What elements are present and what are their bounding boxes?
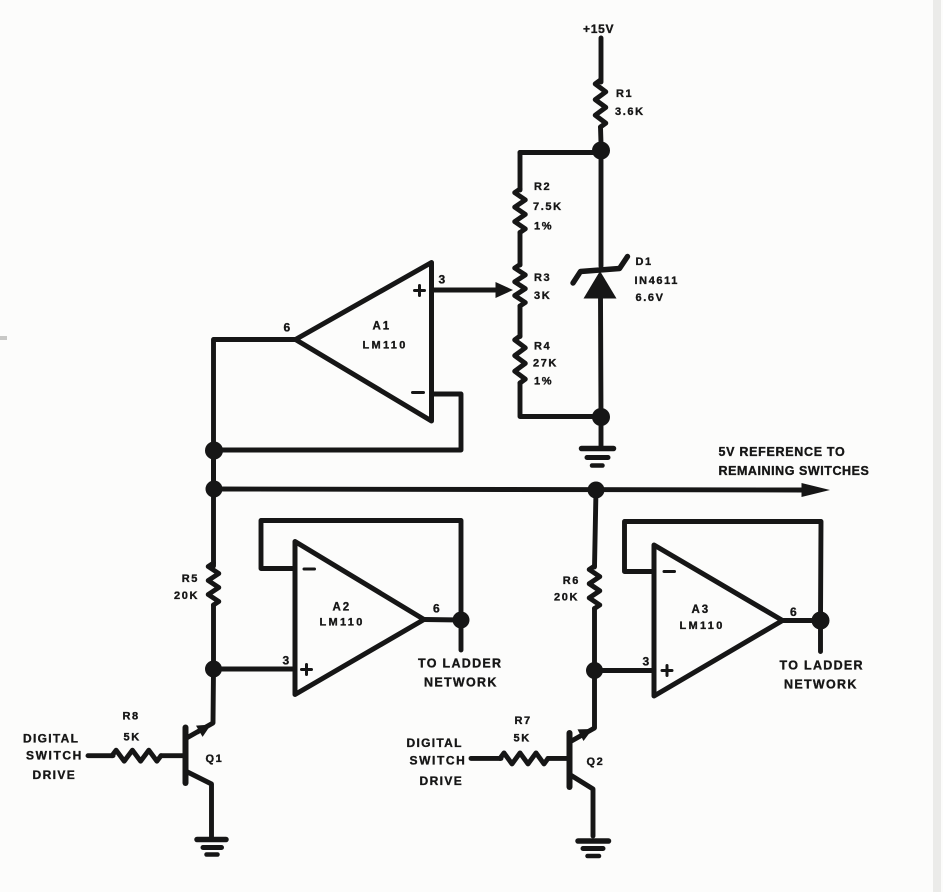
node R5 to A2 input junction xyxy=(205,661,222,678)
node R6 to A3 input junction xyxy=(586,662,603,679)
node reference bus to R6 xyxy=(588,482,605,499)
label A2 pin 3 xyxy=(283,654,290,668)
zener diode D1 cathode bar xyxy=(573,257,628,284)
wire A2 feedback loop xyxy=(261,521,461,621)
svg-text:3.6K: 3.6K xyxy=(615,106,645,118)
label R4 value xyxy=(533,341,558,388)
svg-text:A3: A3 xyxy=(692,604,711,616)
resistor R6 xyxy=(589,566,600,609)
minus sign A1 input xyxy=(413,391,424,394)
label Q1 designator xyxy=(206,753,224,765)
label R5 value xyxy=(174,573,199,602)
ground under Q2 xyxy=(578,841,609,856)
label Q2 designator xyxy=(587,756,605,768)
resistor R8 xyxy=(112,750,161,761)
label A2 designator xyxy=(320,602,365,629)
wire Q1 collector lead xyxy=(188,669,214,738)
arrowhead Q2 emitter-collector xyxy=(578,729,593,741)
wire A3 feedback loop xyxy=(625,522,822,621)
svg-text:DIGITAL: DIGITAL xyxy=(23,732,79,746)
label 5V reference note xyxy=(719,445,870,478)
wire ground lead under reference node xyxy=(595,490,597,567)
label A1 pin 6 xyxy=(284,321,291,335)
svg-text:NETWORK: NETWORK xyxy=(424,676,498,690)
label A1 designator xyxy=(363,321,408,352)
svg-text:Q2: Q2 xyxy=(587,756,605,768)
svg-text:6: 6 xyxy=(790,605,797,619)
svg-text:A1: A1 xyxy=(373,321,392,333)
label R3 value xyxy=(534,272,551,302)
label A3 designator xyxy=(680,604,725,632)
resistor R4 xyxy=(515,336,526,383)
potentiometer R3 xyxy=(515,265,526,307)
label R7 value xyxy=(514,715,532,745)
wire R5 to Q1 collector junction xyxy=(211,605,216,669)
svg-text:R7: R7 xyxy=(515,715,532,727)
svg-text:LM110: LM110 xyxy=(320,617,365,629)
wire A1 inverting feedback loop xyxy=(214,394,461,450)
label R1 value xyxy=(615,88,645,118)
svg-text:5K: 5K xyxy=(124,732,141,744)
svg-text:NETWORK: NETWORK xyxy=(784,678,858,692)
wire digital drive input left xyxy=(88,753,113,758)
svg-text:R1: R1 xyxy=(616,88,633,100)
svg-text:27K: 27K xyxy=(533,358,558,370)
wire R2 to R3 xyxy=(518,233,523,266)
svg-text:R2: R2 xyxy=(534,181,551,193)
wire R6 to Q2 collector junction xyxy=(592,609,597,671)
resistor R2 xyxy=(515,189,526,233)
svg-text:DRIVE: DRIVE xyxy=(33,768,77,782)
wire +15V supply lead xyxy=(599,38,604,82)
svg-text:DRIVE: DRIVE xyxy=(420,774,464,788)
label digital switch drive left xyxy=(23,732,83,783)
node A3 output junction xyxy=(812,612,830,630)
svg-text:D1: D1 xyxy=(636,256,653,268)
label A3 pin 3 xyxy=(643,655,650,669)
svg-text:SWITCH: SWITCH xyxy=(26,749,83,763)
svg-text:1%: 1% xyxy=(534,376,553,388)
resistor R5 xyxy=(208,563,219,605)
label to ladder network left xyxy=(418,657,502,690)
transistor Q2 base bar xyxy=(567,733,573,787)
label A3 pin 6 xyxy=(790,605,797,619)
wire Q2 collector lead xyxy=(572,671,595,742)
label digital switch drive right xyxy=(407,736,467,788)
label A1 pin 3 xyxy=(439,273,446,287)
svg-text:20K: 20K xyxy=(554,592,579,604)
plus sign A3 input xyxy=(662,666,672,676)
svg-text:TO LADDER: TO LADDER xyxy=(780,659,864,673)
label R8 value xyxy=(123,711,141,744)
wire Q2 emitter lead xyxy=(571,775,594,836)
op-amp A2 triangle xyxy=(295,542,424,695)
ground under divider xyxy=(582,449,614,466)
svg-text:1%: 1% xyxy=(534,221,553,233)
wire divider upper segment xyxy=(518,153,523,191)
svg-text:3: 3 xyxy=(283,654,290,668)
minus sign A3 input xyxy=(664,570,675,573)
node A2 output junction xyxy=(453,612,470,629)
wiper arrow into R3 xyxy=(496,282,514,298)
svg-text:7.5K: 7.5K xyxy=(533,201,563,213)
svg-text:LM110: LM110 xyxy=(363,340,408,352)
arrowhead Q1 emitter-collector xyxy=(196,725,211,737)
svg-text:6.6V: 6.6V xyxy=(636,292,665,304)
wire digital drive input right xyxy=(471,756,501,761)
node bottom divider junction xyxy=(592,408,610,426)
wire left rail between junctions xyxy=(211,450,216,489)
op-amp A1 triangle xyxy=(296,263,432,422)
svg-text:6: 6 xyxy=(433,602,440,616)
svg-text:TO LADDER: TO LADDER xyxy=(418,657,502,671)
svg-text:IN4611: IN4611 xyxy=(635,275,679,287)
wire zener anode to bottom node xyxy=(598,296,603,417)
wire Q2 base lead xyxy=(548,756,570,761)
svg-text:R4: R4 xyxy=(534,341,551,353)
svg-text:3: 3 xyxy=(643,655,650,669)
wire A1 noninverting input to R3 wiper xyxy=(432,288,500,293)
svg-text:5V REFERENCE TO: 5V REFERENCE TO xyxy=(719,445,846,459)
svg-text:+15V: +15V xyxy=(583,22,614,36)
label D1 value xyxy=(635,256,679,304)
plus sign A2 input xyxy=(302,665,312,675)
svg-text:R8: R8 xyxy=(123,711,140,723)
wire A2 output to ladder xyxy=(424,620,461,651)
transistor Q1 base bar xyxy=(183,728,189,784)
svg-text:R6: R6 xyxy=(563,575,580,587)
svg-text:Q1: Q1 xyxy=(206,753,224,765)
svg-text:20K: 20K xyxy=(174,590,199,602)
wire A2 noninverting input xyxy=(214,667,296,672)
svg-text:R3: R3 xyxy=(534,272,551,284)
wire R3 to R4 xyxy=(518,306,523,337)
op-amp A3 triangle xyxy=(654,545,783,696)
svg-text:LM110: LM110 xyxy=(680,620,725,632)
arrowhead 5V reference bus xyxy=(802,483,831,497)
wire Q1 base lead xyxy=(161,753,186,758)
svg-text:REMAINING SWITCHES: REMAINING SWITCHES xyxy=(719,464,870,478)
svg-text:5K: 5K xyxy=(514,733,531,745)
wire Q1 emitter lead xyxy=(187,772,212,839)
node A1 output junction upper xyxy=(205,442,223,460)
resistor R7 xyxy=(500,753,548,764)
svg-text:A2: A2 xyxy=(333,602,352,614)
svg-text:SWITCH: SWITCH xyxy=(410,754,467,768)
label R2 value xyxy=(533,181,563,233)
node top rail junction xyxy=(592,142,610,160)
ground under Q1 xyxy=(197,840,226,855)
minus sign A2 input xyxy=(304,568,315,571)
svg-text:3: 3 xyxy=(439,273,446,287)
resistor R1 xyxy=(595,80,606,143)
wire A3 output to ladder xyxy=(783,621,821,652)
label +15V xyxy=(583,22,614,36)
wire main rail node to zener cathode xyxy=(599,150,604,266)
wire divider lower segment xyxy=(520,383,601,417)
wire top node horizontal to divider xyxy=(520,150,601,155)
zener diode D1 anode triangle xyxy=(584,271,617,299)
label to ladder network right xyxy=(780,659,864,692)
svg-text:R5: R5 xyxy=(182,573,199,585)
wire ground lead below bottom node xyxy=(599,417,604,446)
plus sign A1 input xyxy=(415,286,425,296)
label R6 value xyxy=(554,575,580,604)
svg-text:3K: 3K xyxy=(534,290,551,302)
wire A3 noninverting input xyxy=(595,668,655,673)
wire 5V reference bus xyxy=(214,489,803,490)
label A2 pin 6 xyxy=(433,602,440,616)
svg-text:DIGITAL: DIGITAL xyxy=(407,736,463,750)
wire A1 output to left rail xyxy=(214,340,296,567)
node A1 output junction lower xyxy=(206,481,223,498)
svg-text:6: 6 xyxy=(284,321,291,335)
